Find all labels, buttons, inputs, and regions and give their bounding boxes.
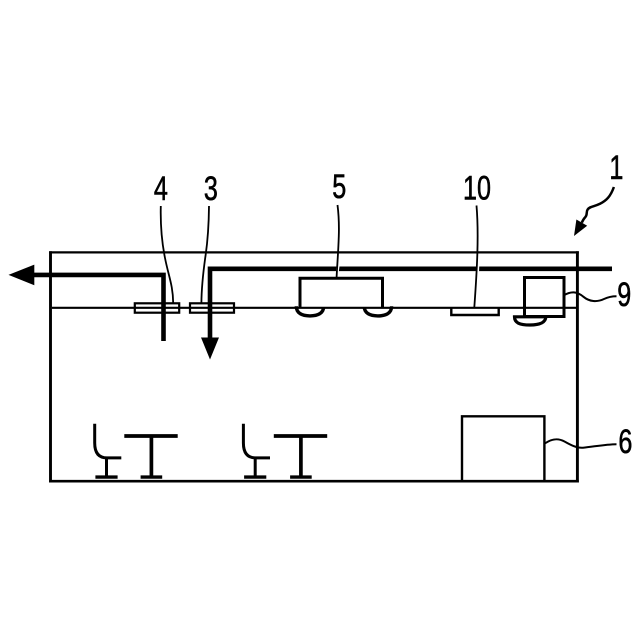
curved arrow for 1 xyxy=(582,187,614,223)
leader line for 10 xyxy=(474,206,477,308)
svg-text:5: 5 xyxy=(332,168,346,206)
leader line for 5 xyxy=(337,205,339,277)
cabin outline: top wall xyxy=(49,251,579,253)
unit 9 box xyxy=(525,278,565,317)
vent 4 (grille) xyxy=(135,303,179,312)
cabin outline: bottom floor xyxy=(49,480,579,483)
leader line for 4 xyxy=(161,206,173,303)
wire casing over duct at leader 5 crossing xyxy=(337,264,338,275)
svg-text:4: 4 xyxy=(154,171,168,209)
table 2 xyxy=(274,436,327,477)
chair 1 xyxy=(95,424,122,477)
svg-text:9: 9 xyxy=(617,276,631,314)
sensor 10 (shallow tray under ceiling) xyxy=(451,308,498,316)
lamp bowl left under 5 xyxy=(296,306,324,316)
svg-text:10: 10 xyxy=(463,170,491,208)
exhaust duct (left, thick with arrow out) xyxy=(33,275,164,341)
svg-text:3: 3 xyxy=(204,170,218,208)
table 1 xyxy=(124,436,177,477)
supply arrowhead xyxy=(201,338,219,360)
svg-text:1: 1 xyxy=(609,150,623,188)
arrowhead for 1 xyxy=(574,220,587,237)
wire casing over duct at leader 10 crossing xyxy=(476,264,479,275)
exhaust arrowhead xyxy=(9,265,35,286)
cabin outline: left wall xyxy=(49,251,52,482)
unit 5 box (open bottom) xyxy=(300,278,383,308)
lamp bowl under 9 xyxy=(515,317,546,325)
supply duct (right, thick with down arrow) xyxy=(210,269,612,339)
vent 3 (grille) xyxy=(190,303,234,312)
lamp bowl right under 5 xyxy=(364,306,392,316)
leader line for 9 xyxy=(564,292,617,301)
leader line for 6 xyxy=(545,439,617,448)
svg-text:6: 6 xyxy=(618,423,632,461)
ceiling line xyxy=(52,307,576,309)
cabin outline: right wall xyxy=(576,251,579,482)
equipment box 6 xyxy=(462,416,544,482)
chair 2 xyxy=(243,424,270,477)
leader line for 3 xyxy=(201,206,209,303)
